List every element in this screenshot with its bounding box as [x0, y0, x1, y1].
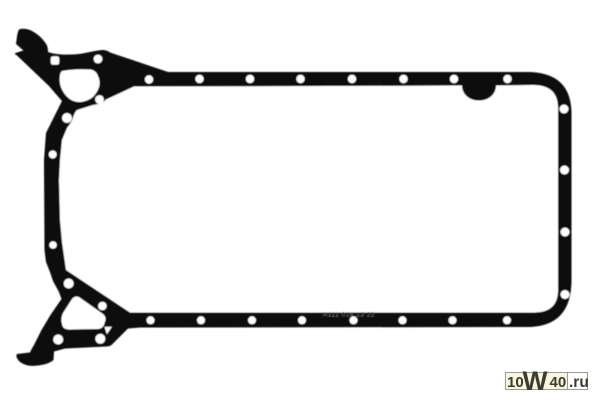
svg-text:A111 014 13 22: A111 014 13 22	[323, 312, 375, 319]
